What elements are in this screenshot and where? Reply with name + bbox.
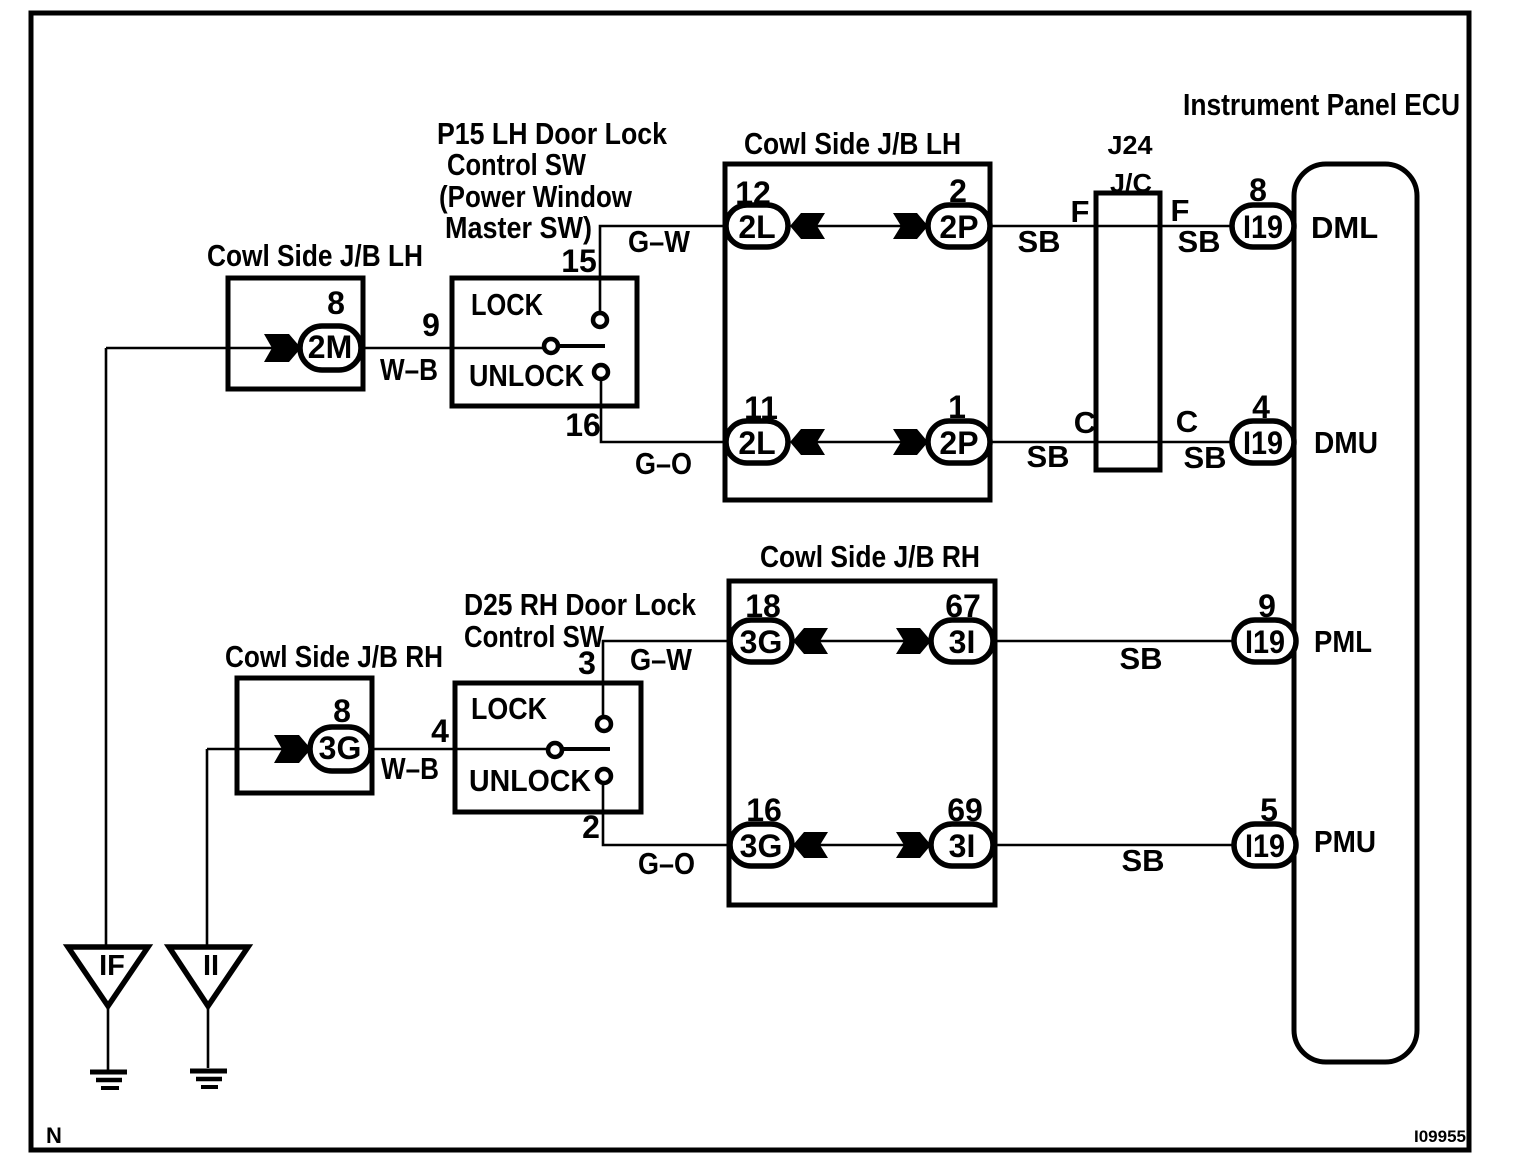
svg-text:Cowl Side J/B RH: Cowl Side J/B RH [760, 539, 980, 574]
internal bus wire row A [810, 225, 905, 228]
switch D25 LOCK contact (pin 3) [597, 717, 611, 731]
pin 15 label (P15) [561, 243, 597, 279]
arrow into connector 2M [264, 334, 301, 362]
svg-text:Cowl Side J/B RH: Cowl Side J/B RH [225, 639, 443, 674]
arrow into connector 3G [274, 735, 311, 763]
node C (right of J24) [1176, 404, 1198, 439]
label SB (row B left) [1026, 439, 1069, 474]
label LOCK (D25) [471, 691, 548, 726]
node PMU [1314, 824, 1376, 859]
pin 3 label (D25) [578, 645, 596, 681]
node DML [1311, 210, 1378, 245]
svg-text:F: F [1171, 193, 1190, 228]
svg-text:3G: 3G [740, 624, 783, 660]
pin 16 label (P15) [565, 407, 601, 443]
svg-text:8: 8 [327, 285, 345, 321]
label SB (row D) [1121, 843, 1164, 878]
pin 11 label [744, 390, 778, 426]
junction box Cowl Side J/B LH (middle) [725, 164, 990, 500]
wire SB row A from 2P to I19 pin 8 [990, 225, 1233, 228]
svg-text:C: C [1176, 404, 1198, 439]
connector I19 pin 5 [1234, 824, 1296, 866]
arrow to connector 3G pin 16 [793, 832, 828, 858]
wire W-B from node IF riser to P15 common contact [106, 347, 544, 350]
svg-text:2L: 2L [738, 209, 775, 245]
pin 12 label [735, 175, 771, 211]
label N (page note) [46, 1123, 62, 1148]
wire SB row D from 3I to I19 pin 5 [993, 844, 1235, 847]
svg-text:Cowl Side J/B LH: Cowl Side J/B LH [207, 238, 423, 273]
svg-text:SB: SB [1121, 843, 1164, 878]
label UNLOCK (P15) [469, 358, 585, 393]
svg-text:9: 9 [422, 307, 440, 343]
svg-text:8: 8 [333, 693, 351, 729]
svg-text:LOCK: LOCK [471, 691, 548, 726]
svg-text:Instrument Panel ECU: Instrument Panel ECU [1183, 87, 1460, 122]
svg-text:I19: I19 [1245, 624, 1285, 660]
junction box Cowl Side J/B RH (middle) [729, 581, 995, 905]
svg-text:G–W: G–W [628, 224, 691, 259]
wire G-W from D25 pin 3 to connector 3G pin 18 [603, 641, 731, 717]
label G-W (lower) [630, 642, 693, 677]
arrow to connector 2L pin 11 [790, 429, 825, 455]
label G-W (upper) [628, 224, 691, 259]
svg-text:G–W: G–W [630, 642, 693, 677]
switch D25 common pole contact [548, 743, 610, 757]
svg-text:15: 15 [561, 243, 597, 279]
svg-text:F: F [1071, 194, 1090, 229]
label Cowl Side J/B RH (left box title) [225, 639, 443, 674]
svg-text:SB: SB [1017, 224, 1060, 259]
label Cowl Side J/B LH (middle box title) [744, 126, 961, 161]
pin 4 label (I19) [1252, 389, 1270, 425]
pin 1 label [948, 389, 966, 425]
connector 3I pin 67 [931, 620, 993, 662]
svg-text:3G: 3G [319, 730, 362, 766]
label Instrument Panel ECU [1183, 87, 1460, 122]
svg-text:Master SW): Master SW) [445, 210, 592, 245]
node C (left of J24) [1074, 405, 1096, 440]
svg-text:I19: I19 [1243, 425, 1283, 461]
svg-text:3I: 3I [949, 828, 976, 864]
svg-text:Cowl Side J/B LH: Cowl Side J/B LH [744, 126, 961, 161]
internal bus wire row D [813, 844, 908, 847]
svg-text:SB: SB [1026, 439, 1069, 474]
svg-text:2M: 2M [308, 329, 352, 365]
junction box Cowl Side J/B RH (left) [237, 678, 372, 793]
connector I19 pin 4 [1232, 421, 1294, 463]
wire SB row B from 2P to I19 pin 4 [990, 441, 1233, 444]
switch P15 box [452, 278, 637, 406]
junction box Cowl Side J/B LH (left) [228, 278, 363, 389]
label Cowl Side J/B RH (middle box title) [760, 539, 980, 574]
wire W-B from node II riser to D25 common contact [207, 748, 548, 751]
svg-text:W–B: W–B [381, 751, 439, 786]
arrow to connector 2P pin 1 [893, 429, 928, 455]
pin 8 label (connector 3G) [333, 693, 351, 729]
svg-text:LOCK: LOCK [471, 287, 543, 322]
svg-text:16: 16 [565, 407, 601, 443]
switch P15 common pole contact [544, 339, 605, 353]
connector I19 pin 8 [1232, 205, 1294, 247]
switch D25 UNLOCK contact (pin 2) [597, 769, 611, 783]
svg-text:SB: SB [1183, 440, 1226, 475]
node PML [1314, 624, 1372, 659]
switch D25 box [455, 683, 641, 812]
ECU U1 Instrument Panel ECU body [1294, 164, 1417, 1062]
svg-text:PML: PML [1314, 624, 1372, 659]
svg-text:Control SW: Control SW [447, 147, 587, 182]
internal bus wire row C [813, 640, 908, 643]
pin 8 label (I19) [1249, 172, 1267, 208]
svg-text:(Power Window: (Power Window [439, 179, 633, 214]
pin 18 label [745, 588, 781, 624]
connector 3I pin 69 [931, 824, 993, 866]
svg-text:DML: DML [1311, 210, 1378, 245]
wire G-O from D25 pin 2 to connector 3G pin 16 [603, 783, 731, 845]
svg-text:4: 4 [431, 713, 449, 749]
pin 2 label (D25) [582, 809, 600, 845]
label W-B (upper) [380, 352, 438, 387]
svg-text:G–O: G–O [635, 446, 692, 481]
svg-text:2: 2 [582, 809, 600, 845]
pin 4 label (D25) [431, 713, 449, 749]
svg-text:P15 LH Door Lock: P15 LH Door Lock [437, 116, 668, 151]
label J24 J/C [1108, 130, 1154, 198]
switch P15 LOCK contact (pin 15) [593, 313, 607, 327]
connector 2P pin 2 [928, 205, 990, 247]
svg-text:I19: I19 [1243, 209, 1283, 245]
svg-text:UNLOCK: UNLOCK [469, 763, 592, 798]
connector 2L pin 11 [726, 421, 788, 463]
svg-text:DMU: DMU [1314, 425, 1378, 460]
arrow to connector 2L pin 12 [790, 213, 825, 239]
svg-text:UNLOCK: UNLOCK [469, 358, 585, 393]
wire riser to ground IF [105, 348, 108, 947]
svg-text:G–O: G–O [638, 846, 695, 881]
svg-text:J24: J24 [1108, 130, 1154, 160]
pin 67 label [945, 588, 981, 624]
svg-text:W–B: W–B [380, 352, 438, 387]
label UNLOCK (D25) [469, 763, 592, 798]
label G-O (lower) [638, 846, 695, 881]
node F (right of J24) [1171, 193, 1190, 228]
pin 9 label (I19) [1258, 588, 1276, 624]
label SB (row B right) [1183, 440, 1226, 475]
connector 3G pin 16 [730, 824, 792, 866]
internal bus wire row B [810, 441, 905, 444]
label W-B (lower) [381, 751, 439, 786]
svg-text:PMU: PMU [1314, 824, 1376, 859]
label G-O (upper) [635, 446, 692, 481]
switch P15 UNLOCK contact (pin 16) [594, 365, 608, 379]
connector 3G [310, 727, 371, 771]
label SB (row A right) [1177, 224, 1220, 259]
svg-text:2P: 2P [939, 209, 978, 245]
ground II [169, 947, 248, 1087]
pin 2 label [949, 173, 967, 209]
node F (left of J24) [1071, 194, 1090, 229]
svg-text:N: N [46, 1123, 62, 1148]
svg-text:I19: I19 [1245, 828, 1285, 864]
wire SB row C from 3I to I19 pin 9 [993, 640, 1235, 643]
connector 2L pin 12 [726, 205, 788, 247]
svg-text:SB: SB [1177, 224, 1220, 259]
ground IF [68, 947, 148, 1088]
junction connector J24 box [1096, 193, 1160, 470]
svg-text:SB: SB [1119, 641, 1162, 676]
label D25 RH Door Lock Control SW [464, 587, 697, 654]
label Cowl Side J/B LH (left box title) [207, 238, 423, 273]
label P15 LH Door Lock Control SW (Power Window Master SW) [437, 116, 668, 245]
connector 2M [300, 326, 361, 370]
connector 2P pin 1 [928, 421, 990, 463]
wire G-W from P15 pin 15 to connector 2L pin 12 [600, 226, 727, 313]
svg-text:3: 3 [578, 645, 596, 681]
pin 9 label (P15) [422, 307, 440, 343]
label I09955 (figure number) [1414, 1127, 1466, 1146]
svg-text:3I: 3I [949, 624, 976, 660]
wire G-O from P15 pin 16 to connector 2L pin 11 [601, 379, 727, 442]
pin 69 label [947, 792, 983, 828]
connector I19 pin 9 [1234, 620, 1296, 662]
svg-text:2P: 2P [939, 425, 978, 461]
svg-text:I09955: I09955 [1414, 1127, 1466, 1146]
arrow to connector 3I pin 69 [896, 832, 931, 858]
label LOCK (P15) [471, 287, 543, 322]
arrow to connector 3I pin 67 [896, 628, 931, 654]
pin 5 label (I19) [1260, 792, 1278, 828]
arrow to connector 3G pin 18 [793, 628, 828, 654]
svg-text:II: II [203, 950, 219, 982]
svg-text:2L: 2L [738, 425, 775, 461]
connector 3G pin 18 [730, 620, 792, 662]
wire riser to ground II [206, 749, 209, 947]
pin 16 label [746, 792, 782, 828]
label SB (row A left) [1017, 224, 1060, 259]
svg-text:C: C [1074, 405, 1096, 440]
svg-text:IF: IF [99, 950, 125, 982]
pin 8 label (connector 2M) [327, 285, 345, 321]
node DMU [1314, 425, 1378, 460]
svg-text:D25 RH Door Lock: D25 RH Door Lock [464, 587, 697, 622]
svg-text:3G: 3G [740, 828, 783, 864]
label SB (row C) [1119, 641, 1162, 676]
arrow to connector 2P pin 2 [893, 213, 928, 239]
